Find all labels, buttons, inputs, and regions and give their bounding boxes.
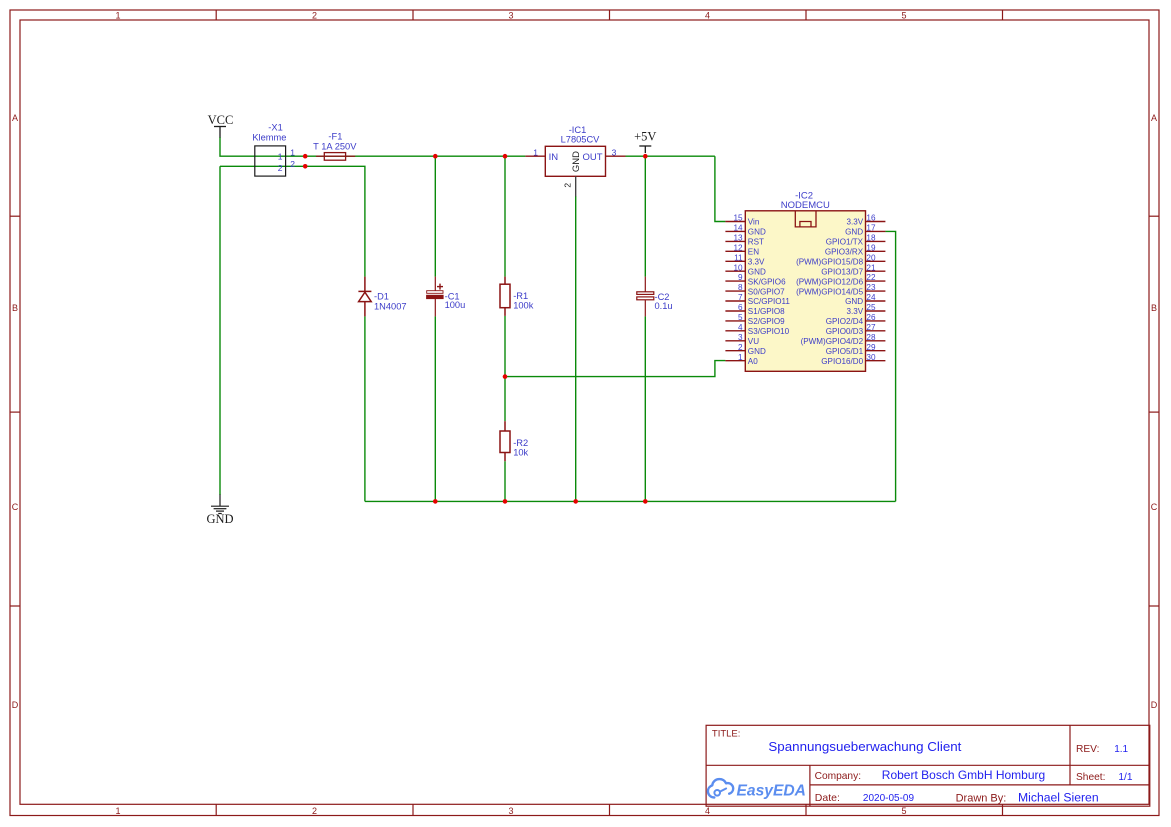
svg-text:GND: GND xyxy=(206,512,233,526)
svg-text:Drawn By:: Drawn By: xyxy=(956,792,1007,804)
svg-text:26: 26 xyxy=(866,313,876,322)
svg-text:VCC: VCC xyxy=(208,113,234,127)
svg-text:30: 30 xyxy=(866,353,876,362)
svg-text:GPIO3/RX: GPIO3/RX xyxy=(825,248,864,257)
svg-text:2: 2 xyxy=(563,183,573,188)
svg-text:2: 2 xyxy=(312,806,317,816)
svg-text:A: A xyxy=(1151,113,1157,123)
svg-text:GND: GND xyxy=(571,151,582,172)
svg-text:2: 2 xyxy=(738,343,743,352)
svg-text:-F1: -F1 xyxy=(328,132,342,142)
svg-text:C: C xyxy=(1151,502,1158,512)
svg-text:1.1: 1.1 xyxy=(1114,744,1128,755)
svg-text:GND: GND xyxy=(748,347,766,356)
svg-text:3.3V: 3.3V xyxy=(846,218,863,227)
svg-text:23: 23 xyxy=(866,283,876,292)
svg-text:REV:: REV: xyxy=(1076,744,1099,755)
svg-text:10: 10 xyxy=(733,263,743,272)
svg-text:C: C xyxy=(12,502,19,512)
svg-text:S3/GPIO10: S3/GPIO10 xyxy=(748,327,790,336)
svg-text:-R1: -R1 xyxy=(513,291,528,301)
svg-text:2: 2 xyxy=(312,11,317,21)
svg-text:18: 18 xyxy=(866,234,876,243)
svg-text:(PWM)GPIO12/D6: (PWM)GPIO12/D6 xyxy=(796,277,864,286)
svg-text:GPIO2/D4: GPIO2/D4 xyxy=(826,317,864,326)
svg-text:1: 1 xyxy=(278,152,283,162)
svg-text:+5V: +5V xyxy=(634,129,656,143)
svg-text:1: 1 xyxy=(115,11,120,21)
svg-text:3: 3 xyxy=(612,147,617,157)
svg-text:Spannungsueberwachung Client: Spannungsueberwachung Client xyxy=(768,740,962,754)
svg-text:3: 3 xyxy=(508,11,513,21)
svg-text:1: 1 xyxy=(115,806,120,816)
svg-text:22: 22 xyxy=(866,273,876,282)
svg-text:1: 1 xyxy=(533,147,538,157)
svg-text:19: 19 xyxy=(866,243,876,252)
svg-text:11: 11 xyxy=(734,253,743,262)
svg-text:15: 15 xyxy=(733,214,743,223)
svg-text:A: A xyxy=(12,113,18,123)
svg-text:9: 9 xyxy=(738,273,743,282)
svg-text:6: 6 xyxy=(738,303,743,312)
svg-text:-D1: -D1 xyxy=(374,292,389,302)
svg-text:2: 2 xyxy=(290,159,295,169)
svg-text:13: 13 xyxy=(733,234,743,243)
svg-text:S2/GPIO9: S2/GPIO9 xyxy=(748,317,785,326)
svg-text:5: 5 xyxy=(901,11,906,21)
svg-text:NODEMCU: NODEMCU xyxy=(781,200,830,211)
svg-text:Sheet:: Sheet: xyxy=(1076,772,1105,783)
svg-text:GND: GND xyxy=(845,228,863,237)
svg-text:GPIO0/D3: GPIO0/D3 xyxy=(826,327,864,336)
svg-text:17: 17 xyxy=(866,224,876,233)
svg-text:Michael Sieren: Michael Sieren xyxy=(1018,790,1099,804)
svg-text:12: 12 xyxy=(733,243,743,252)
svg-text:S1/GPIO8: S1/GPIO8 xyxy=(748,307,785,316)
svg-text:GPIO5/D1: GPIO5/D1 xyxy=(826,347,864,356)
svg-text:2020-05-09: 2020-05-09 xyxy=(863,793,915,804)
svg-text:4: 4 xyxy=(705,11,710,21)
svg-text:8: 8 xyxy=(738,283,743,292)
svg-text:VU: VU xyxy=(748,337,759,346)
svg-text:S0/GPIO7: S0/GPIO7 xyxy=(748,287,785,296)
svg-text:B: B xyxy=(12,303,18,313)
svg-text:SK/GPIO6: SK/GPIO6 xyxy=(748,277,786,286)
svg-text:EN: EN xyxy=(748,248,759,257)
svg-text:GND: GND xyxy=(748,228,766,237)
svg-text:Klemme: Klemme xyxy=(252,133,286,143)
svg-text:14: 14 xyxy=(733,224,743,233)
svg-text:10k: 10k xyxy=(513,448,528,458)
svg-text:5: 5 xyxy=(738,313,743,322)
svg-text:2: 2 xyxy=(278,163,283,173)
svg-text:1/1: 1/1 xyxy=(1118,772,1132,783)
svg-text:24: 24 xyxy=(866,293,876,302)
svg-text:(PWM)GPIO4/D2: (PWM)GPIO4/D2 xyxy=(801,337,864,346)
svg-text:D: D xyxy=(12,700,19,710)
svg-text:GPIO16/D0: GPIO16/D0 xyxy=(821,357,863,366)
svg-text:Robert Bosch GmbH Homburg: Robert Bosch GmbH Homburg xyxy=(882,768,1045,782)
svg-text:28: 28 xyxy=(866,333,876,342)
svg-text:GPIO1/TX: GPIO1/TX xyxy=(826,238,864,247)
svg-text:TITLE:: TITLE: xyxy=(712,729,741,740)
svg-text:100u: 100u xyxy=(445,300,466,310)
svg-text:3.3V: 3.3V xyxy=(846,307,863,316)
svg-text:B: B xyxy=(1151,303,1157,313)
svg-text:A0: A0 xyxy=(748,357,758,366)
svg-text:4: 4 xyxy=(738,323,743,332)
svg-text:T 1A 250V: T 1A 250V xyxy=(313,141,357,151)
svg-text:(PWM)GPIO15/D8: (PWM)GPIO15/D8 xyxy=(796,258,864,267)
svg-text:100k: 100k xyxy=(513,301,534,311)
svg-text:Company:: Company: xyxy=(815,771,861,782)
svg-text:D: D xyxy=(1151,700,1158,710)
svg-text:16: 16 xyxy=(866,214,876,223)
svg-text:Date:: Date: xyxy=(815,792,840,804)
svg-text:GPIO13/D7: GPIO13/D7 xyxy=(821,267,863,276)
svg-text:L7805CV: L7805CV xyxy=(561,134,601,144)
svg-text:GND: GND xyxy=(748,267,766,276)
svg-text:3: 3 xyxy=(738,333,743,342)
svg-text:29: 29 xyxy=(866,343,876,352)
svg-text:-X1: -X1 xyxy=(268,122,282,132)
svg-text:7: 7 xyxy=(738,293,743,302)
svg-text:GND: GND xyxy=(845,297,863,306)
svg-text:SC/GPIO11: SC/GPIO11 xyxy=(748,297,791,306)
svg-text:3: 3 xyxy=(508,806,513,816)
svg-text:25: 25 xyxy=(866,303,876,312)
svg-text:20: 20 xyxy=(866,253,876,262)
svg-text:1: 1 xyxy=(738,353,743,362)
svg-text:21: 21 xyxy=(866,263,876,272)
svg-text:1N4007: 1N4007 xyxy=(374,301,407,311)
svg-text:EasyEDA: EasyEDA xyxy=(737,782,806,799)
svg-text:IN: IN xyxy=(549,152,559,163)
svg-text:4: 4 xyxy=(705,806,710,816)
svg-text:OUT: OUT xyxy=(582,152,602,163)
svg-text:3.3V: 3.3V xyxy=(748,258,765,267)
svg-text:Vin: Vin xyxy=(748,218,760,227)
svg-text:RST: RST xyxy=(748,238,764,247)
svg-text:(PWM)GPIO14/D5: (PWM)GPIO14/D5 xyxy=(796,287,864,296)
svg-text:1: 1 xyxy=(290,148,295,158)
svg-text:27: 27 xyxy=(866,323,876,332)
svg-text:0.1u: 0.1u xyxy=(655,301,673,311)
svg-text:5: 5 xyxy=(901,806,906,816)
